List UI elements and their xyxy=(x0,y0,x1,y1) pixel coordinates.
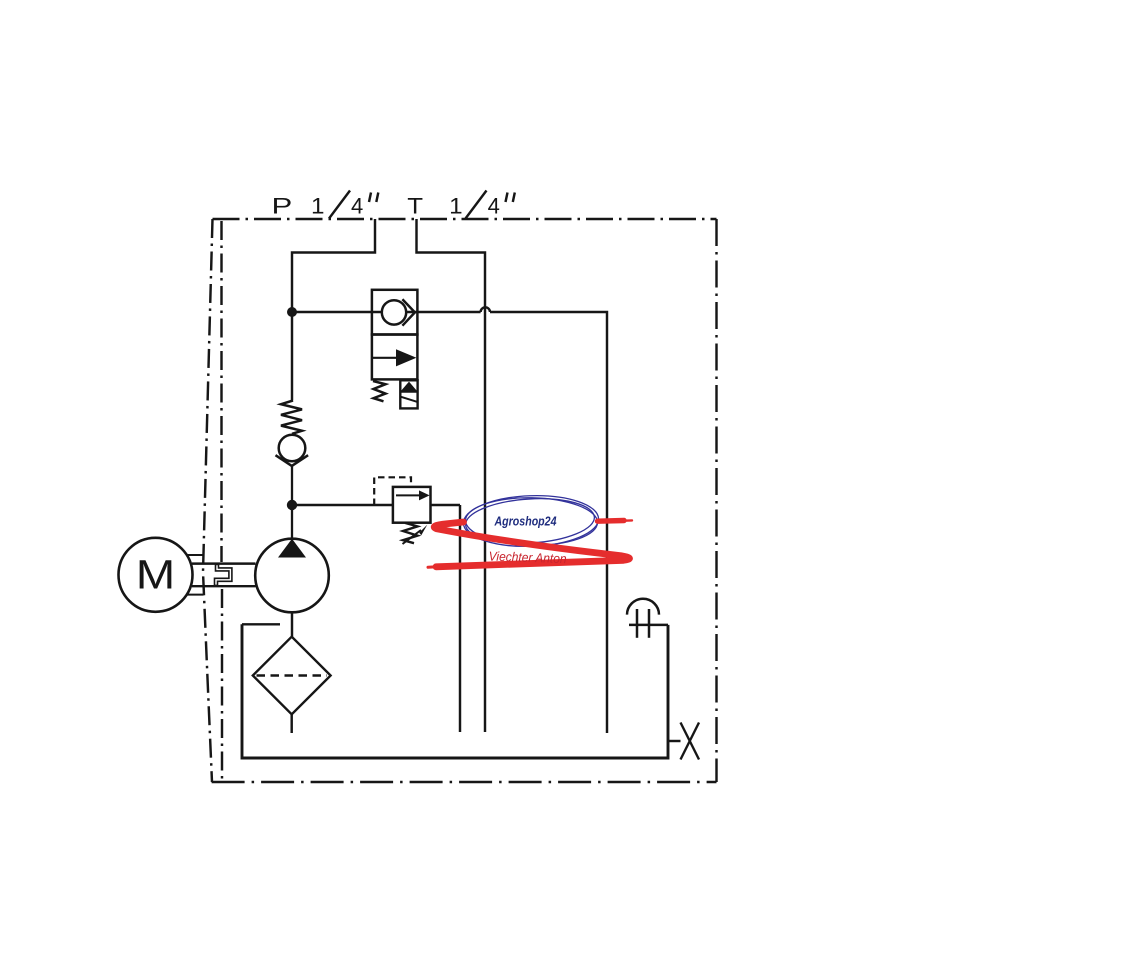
svg-text:P: P xyxy=(272,194,293,219)
svg-text:1: 1 xyxy=(449,194,463,219)
svg-text:Agroshop24: Agroshop24 xyxy=(494,514,557,529)
svg-text:4: 4 xyxy=(488,194,500,219)
svg-text:1: 1 xyxy=(311,194,325,219)
svg-text:Viechter Anton: Viechter Anton xyxy=(488,549,566,567)
svg-text:T: T xyxy=(407,194,423,219)
svg-text:M: M xyxy=(136,552,176,598)
svg-text:4: 4 xyxy=(351,194,363,219)
